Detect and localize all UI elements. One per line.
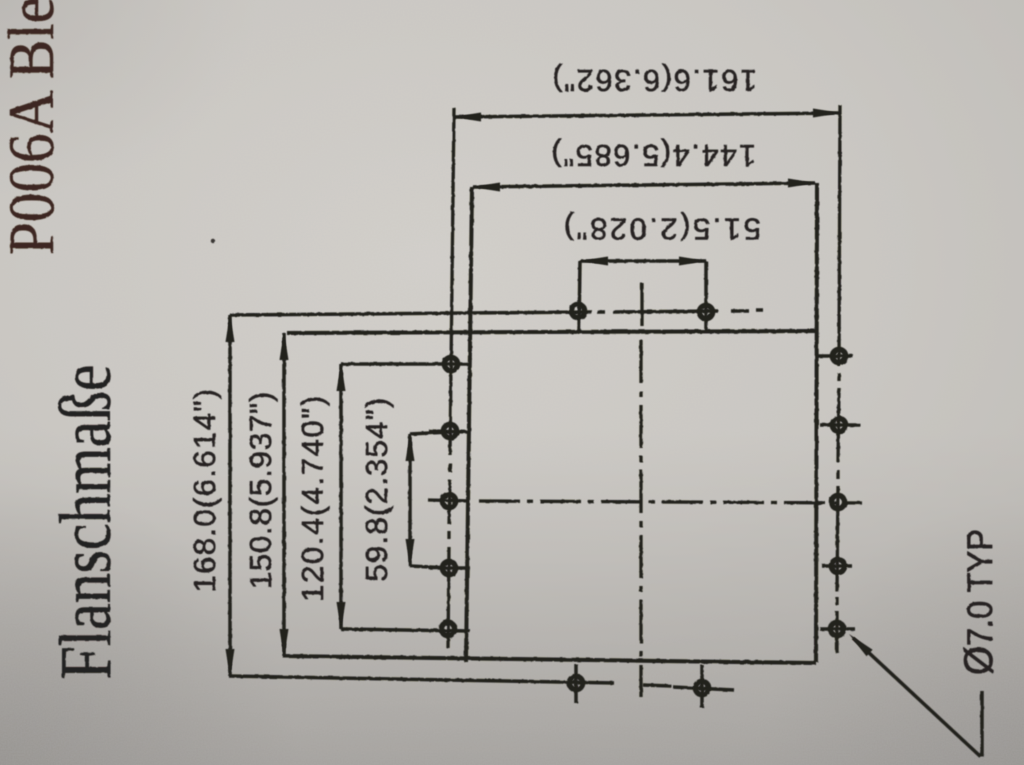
hole L1: [444, 357, 457, 370]
hole stub left h4: [429, 566, 470, 570]
bottom holes row line: [229, 676, 734, 690]
hole R2: [832, 418, 845, 431]
svg-text:P006A Ble: P006A Ble: [0, 0, 68, 255]
flange outline bottom edge: [283, 656, 816, 663]
arrowhead 161.6 right: [813, 109, 841, 118]
hole stub right h4: [822, 564, 852, 568]
hole T2: [699, 305, 712, 318]
dimension line 168.0 vertical: [228, 315, 232, 676]
arrowhead 51.5 right: [679, 257, 707, 266]
dimension line 144.4 horizontal: [473, 183, 815, 187]
hole L3: [442, 494, 455, 507]
centerline horizontal dash-dot: [428, 500, 862, 503]
svg-text:150.8(5.937"): 150.8(5.937"): [243, 391, 278, 590]
dimension line 150.8 vertical: [282, 333, 286, 656]
leader underline: [980, 691, 984, 757]
hole R5: [830, 622, 843, 635]
connector 59.8 bottom: [410, 566, 450, 568]
hole R3: [831, 495, 844, 508]
paper speck: [211, 239, 215, 243]
arrowhead 161.6 left: [453, 113, 481, 122]
hole stub right h1: [818, 354, 853, 358]
arrowhead 144.4 right: [788, 179, 816, 188]
hole stub left h2: [429, 431, 470, 432]
hole stub right h5: [820, 627, 855, 631]
hole stub right h2: [820, 423, 860, 427]
svg-text:161.6(6.362"): 161.6(6.362"): [551, 63, 757, 98]
connector 59.8 top: [410, 432, 450, 434]
svg-text:Flanschmaße: Flanschmaße: [45, 365, 126, 680]
arrowhead 168.0 top: [226, 314, 235, 342]
extension leg 51.5 right: [704, 261, 708, 331]
svg-text:59.8(2.354"): 59.8(2.354"): [359, 396, 394, 581]
leader line diagonal: [853, 638, 981, 757]
extension line right (through right hole column): [837, 105, 840, 653]
svg-text:168.0(6.614"): 168.0(6.614"): [187, 387, 222, 592]
arrowhead leader: [849, 634, 873, 656]
hole L4: [442, 561, 455, 574]
arrowhead 150.8 top: [280, 332, 289, 360]
svg-text:Ø7.0 TYP: Ø7.0 TYP: [957, 529, 1001, 675]
hole B2: [695, 681, 708, 694]
arrowhead 120.4 bottom: [337, 602, 346, 630]
hole B1: [569, 676, 582, 689]
hole stub bottom b1 vertical: [574, 664, 578, 703]
hole stub bottom b2 vertical: [700, 665, 704, 708]
flange outline top edge: [287, 331, 818, 333]
svg-text:120.4(4.740"): 120.4(4.740"): [295, 394, 330, 602]
hole R4: [831, 559, 844, 572]
extension leg 51.5 left: [579, 261, 580, 331]
extension line 120.4 bottom: [341, 629, 470, 631]
arrowhead 144.4 left: [472, 183, 500, 192]
centerline vertical dash-dot: [641, 283, 642, 697]
dimension line 161.6 horizontal: [454, 113, 840, 117]
arrowhead 59.8 top: [406, 433, 415, 461]
dimension line 59.8 vertical: [408, 434, 412, 566]
dimension line 120.4 vertical: [339, 364, 343, 629]
svg-text:51.5(2.028"): 51.5(2.028"): [561, 212, 761, 247]
arrowhead 59.8 bottom: [406, 539, 415, 567]
arrowhead 120.4 top: [337, 363, 346, 391]
arrowhead 51.5 left: [580, 257, 608, 266]
hole R1: [832, 349, 845, 362]
arrowhead 168.0 bottom: [226, 649, 235, 677]
arrowhead 150.8 bottom: [280, 629, 289, 657]
flange outline right edge: [816, 183, 817, 662]
hole L2: [443, 424, 456, 437]
hole T1: [571, 304, 584, 317]
flange outline left edge: [466, 187, 472, 662]
extension line left (through left hole column): [448, 108, 454, 648]
extension line 120.4 top: [341, 362, 470, 366]
svg-text:144.4(5.685"): 144.4(5.685"): [550, 138, 756, 173]
top holes row line: [230, 310, 763, 315]
hole L5: [441, 622, 454, 635]
dimension line 51.5 horizontal: [581, 259, 706, 263]
